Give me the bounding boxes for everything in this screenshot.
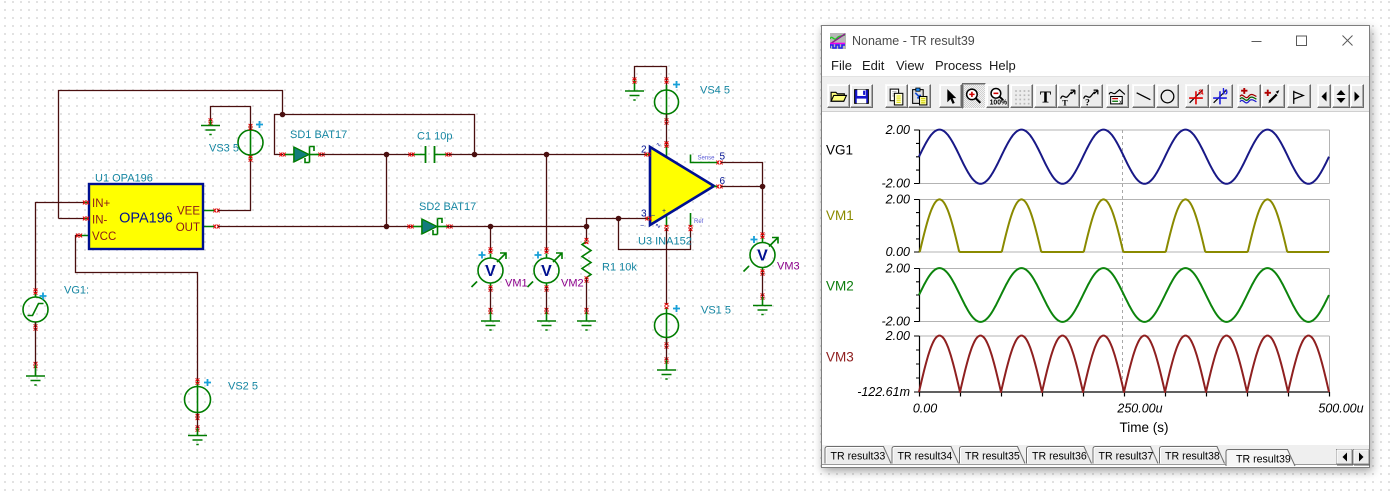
svg-text:∿: ∿: [655, 223, 661, 230]
node junction output: [760, 184, 766, 190]
wire VEE to VS3: [218, 155, 251, 211]
node junction R1 top: [584, 224, 590, 230]
wire output pin6: [721, 186, 763, 188]
wire VCC to VS2: [76, 236, 198, 388]
svg-text:0.00: 0.00: [886, 245, 910, 259]
wire Ref bracket: [619, 219, 691, 250]
ground below R1: [586, 312, 588, 321]
ground at VS3: [210, 120, 212, 126]
svg-text:VM3: VM3: [826, 350, 854, 365]
wire OUT row: [218, 226, 413, 228]
svg-text:TR result37: TR result37: [1099, 451, 1154, 463]
svg-text:0.00: 0.00: [913, 402, 937, 416]
svg-text:100%: 100%: [989, 99, 1006, 106]
svg-text:Time (s): Time (s): [1120, 420, 1169, 435]
svg-text:V: V: [757, 248, 768, 265]
wire from node to C1 right side: [283, 115, 475, 155]
node junction VM1 tap: [488, 224, 494, 230]
wire bracket down to SD1 anode: [275, 115, 284, 155]
waveform VG1: [919, 130, 1329, 184]
wire VM3 to ground: [762, 272, 764, 299]
cursor dashed line: [1122, 130, 1124, 392]
ground below VG1: [35, 365, 37, 376]
svg-text:Ref: Ref: [694, 219, 704, 225]
wire output down to VM3: [762, 187, 764, 239]
svg-text:C1 10p: C1 10p: [417, 131, 452, 143]
waveform VM2: [919, 268, 1329, 322]
node junction SD1/C1: [384, 152, 390, 158]
svg-text:VCC: VCC: [92, 231, 116, 243]
svg-text:VEE: VEE: [177, 206, 200, 218]
wire R1 corner up to pin3 row: [587, 219, 648, 227]
wire top feedback from IN-: [59, 91, 283, 219]
svg-text:VS3 5: VS3 5: [209, 143, 239, 155]
svg-text:T: T: [1039, 87, 1050, 106]
svg-text:VG1: VG1: [826, 143, 853, 158]
node junction VM2 tap: [544, 152, 550, 158]
diode SD2 BAT17: [412, 226, 422, 228]
svg-text:TR result36: TR result36: [1032, 451, 1087, 463]
wire IN- stub: [59, 218, 85, 220]
node junction OUT/C1: [384, 224, 390, 230]
tab TR result37: [1093, 447, 1158, 464]
svg-text:VM3: VM3: [777, 261, 800, 273]
svg-text:VS4 5: VS4 5: [700, 85, 730, 97]
plot frame VG1: [920, 130, 1330, 184]
svg-text:VS1 5: VS1 5: [701, 305, 731, 317]
ground below VM2: [546, 312, 548, 321]
svg-text:TR result34: TR result34: [898, 451, 953, 463]
svg-text:V: V: [485, 263, 496, 280]
svg-text:TR result35: TR result35: [965, 451, 1020, 463]
svg-text:VM2: VM2: [826, 279, 854, 294]
wire VS2 to ground: [197, 413, 199, 429]
resistor R1 10k: [586, 227, 588, 242]
ground below VS2: [197, 428, 199, 435]
tab TR result39 selected: [1226, 450, 1295, 467]
tab TR result33: [825, 447, 891, 464]
wire op-amp V- down to VS1: [666, 228, 668, 305]
tab TR result35: [960, 447, 1026, 464]
tab TR result38: [1160, 447, 1225, 464]
svg-text:-2.00: -2.00: [882, 315, 911, 329]
svg-text:U1 OPA196: U1 OPA196: [95, 173, 153, 185]
voltage source VS1 5: [655, 314, 679, 338]
wire C1 right row to pin2: [447, 154, 645, 156]
svg-text:∿: ∿: [656, 143, 661, 149]
svg-text:SD2 BAT17: SD2 BAT17: [419, 201, 476, 213]
capacitor C1 10p: [413, 154, 447, 156]
svg-text:U3 INA152: U3 INA152: [638, 236, 692, 248]
ground below VS1: [666, 360, 668, 370]
wire VS4 to op-amp V+: [666, 114, 668, 146]
wire down to VM2: [546, 155, 548, 254]
ground below VM1: [490, 312, 492, 321]
svg-text:IN+: IN+: [92, 198, 111, 210]
waveform VM1: [919, 199, 1329, 252]
waveform VM3: [919, 336, 1329, 392]
svg-text:Sense: Sense: [698, 156, 716, 162]
voltmeter VM2: [534, 258, 559, 283]
node junction C1/feedback: [472, 152, 478, 158]
wire Sense to output node: [721, 163, 763, 187]
svg-text:VM2: VM2: [561, 278, 584, 290]
tab TR result36: [1027, 447, 1092, 464]
voltage source VS4 5: [655, 90, 679, 114]
wire down to VM1: [490, 227, 492, 254]
svg-text:2.00: 2.00: [885, 123, 910, 137]
svg-text:−: −: [640, 223, 644, 230]
svg-text:OPA196: OPA196: [119, 211, 173, 227]
op-amp U1 OPA196: [81, 203, 214, 236]
plot frame VM3: [920, 336, 1330, 392]
svg-text:?: ?: [1085, 98, 1090, 106]
wire SD2 to R1 corner: [447, 226, 587, 228]
svg-text:2.00: 2.00: [885, 329, 910, 343]
voltage source VS3 5: [238, 130, 263, 155]
svg-text:VM1: VM1: [826, 208, 854, 223]
svg-text:TR result33: TR result33: [831, 451, 886, 463]
wire VM1 to ground: [490, 287, 492, 312]
svg-text:2.00: 2.00: [885, 262, 910, 276]
plot frame VM2: [920, 269, 1330, 322]
svg-text:IN-: IN-: [92, 215, 108, 227]
wire VS4 top bracket: [635, 67, 667, 91]
ground below VM3: [762, 297, 764, 306]
tab scroll right button: [1354, 450, 1370, 465]
wire R1 to ground: [586, 278, 588, 312]
svg-text:T: T: [1062, 97, 1068, 106]
tab TR result34: [892, 447, 959, 464]
wire SD1 to junction: [320, 154, 413, 156]
x axis: [920, 392, 1330, 397]
node junction at feedback corner: [280, 112, 286, 118]
wire VM2 to ground: [546, 287, 548, 312]
tab bar background: [822, 445, 1369, 465]
svg-text:-2.00: -2.00: [882, 177, 911, 191]
wire VS1 to ground: [666, 338, 668, 361]
node junction Ref bracket: [616, 216, 622, 222]
diode SD1 BAT17: [284, 154, 294, 156]
svg-text:250.00u: 250.00u: [1116, 402, 1162, 416]
svg-text:SD1 BAT17: SD1 BAT17: [290, 129, 347, 141]
op-amp U3 INA152: [645, 155, 650, 219]
voltmeter VM3: [750, 243, 775, 268]
voltmeter VM1: [478, 258, 503, 283]
svg-text:VS2 5: VS2 5: [228, 381, 258, 393]
svg-text:V: V: [541, 263, 552, 280]
svg-text:VM1: VM1: [505, 278, 528, 290]
svg-text:R1 10k: R1 10k: [602, 262, 637, 274]
svg-text:TR result38: TR result38: [1165, 451, 1220, 463]
wire junction down to OUT row: [386, 155, 388, 227]
svg-text:2.00: 2.00: [885, 193, 910, 207]
svg-text:b: b: [1222, 87, 1228, 97]
tab scroll left button: [1337, 450, 1353, 465]
svg-text:TR result39: TR result39: [1236, 454, 1291, 466]
svg-text:VG1:: VG1:: [64, 285, 89, 297]
wire IN+ row: [36, 203, 85, 298]
svg-text:−: −: [651, 213, 655, 220]
generator VG1: [23, 297, 48, 322]
wire VG1 to ground: [35, 322, 37, 375]
svg-text:x: x: [1119, 99, 1122, 105]
svg-text:-122.61m: -122.61m: [857, 385, 910, 399]
ground for VS4: [634, 80, 636, 91]
svg-text:a: a: [1198, 87, 1204, 97]
svg-text:OUT: OUT: [176, 222, 200, 234]
voltage source VS2 5: [185, 387, 211, 413]
svg-text:+: +: [662, 208, 666, 215]
wire VS3 top to ground: [211, 107, 251, 131]
svg-text:500.00u: 500.00u: [1318, 402, 1363, 416]
plot frame VM1: [920, 200, 1330, 253]
